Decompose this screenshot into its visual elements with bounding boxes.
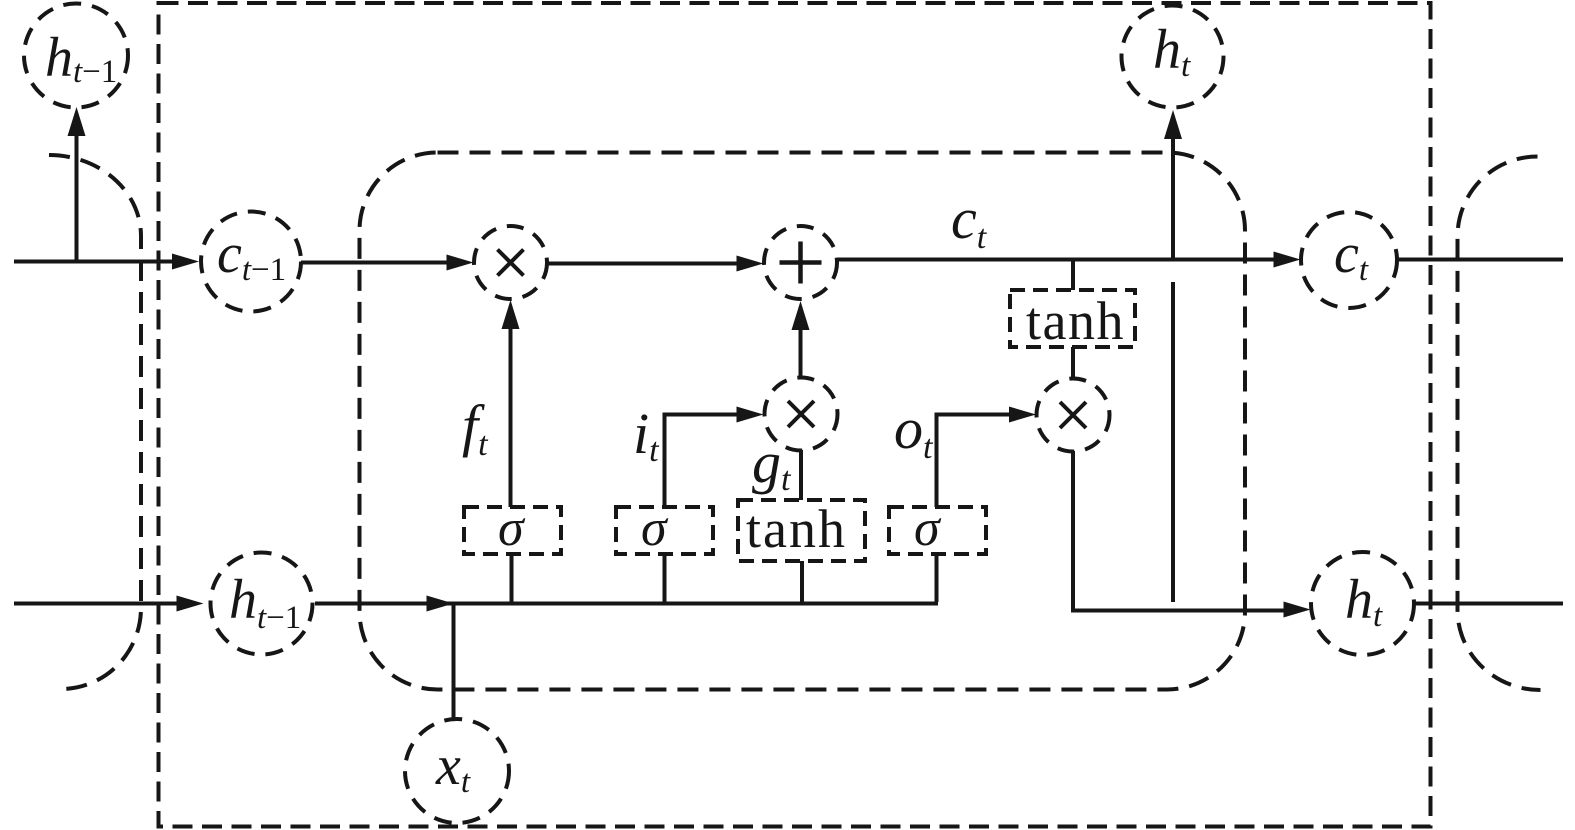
- wire tanh down to multiply: [1071, 347, 1075, 379]
- arrowhead into c_t right: [1274, 252, 1301, 268]
- node x_t circle: [405, 719, 509, 823]
- op circle multiply (forget gate): [474, 226, 547, 299]
- wire g arrow shaft up to plus: [799, 328, 803, 378]
- svg-text:tanh: tanh: [746, 499, 847, 559]
- arrowhead into plus: [737, 256, 764, 272]
- arrowhead up into h_t top: [1164, 110, 1182, 139]
- multiply symbol 3: [1060, 402, 1086, 428]
- wire h_t vertical lower part: [1171, 282, 1175, 602]
- node h_t top circle: [1122, 6, 1224, 108]
- svg-text:tanh: tanh: [1026, 291, 1125, 351]
- op circle multiply (input gate): [765, 378, 838, 451]
- multiply symbol 1: [498, 250, 524, 276]
- wire tanh lower connector: [800, 561, 804, 602]
- wire h output from multiply to h_t right: [1073, 451, 1286, 611]
- arrowhead into h_t right: [1284, 602, 1311, 618]
- wire f_t arrow shaft: [509, 328, 513, 507]
- LSTM cell inner rounded dashed rectangle: [360, 153, 1246, 690]
- arrowhead g up into plus: [792, 301, 810, 330]
- arrowhead up into h_{t-1} top-left: [68, 107, 86, 136]
- next-cell edge curve (right): [1458, 157, 1541, 691]
- node h_{t-1} top-left circle: [24, 4, 128, 108]
- op circle plus (cell update): [764, 226, 837, 299]
- op circle multiply (output gate): [1037, 379, 1110, 452]
- wire multiply to plus: [547, 262, 739, 266]
- box tanh (cell output squash): [1010, 290, 1135, 347]
- wire up to h_{t-1} top-left: [75, 136, 79, 262]
- wire sigma1 lower connector: [510, 554, 514, 602]
- previous-cell edge curve (left): [49, 155, 141, 689]
- node c_t right circle: [1301, 212, 1397, 308]
- arrowhead o_t into multiply: [1009, 407, 1036, 423]
- gate box sigma 3 (output): [889, 507, 986, 554]
- arrowhead into junction above x_t: [427, 596, 454, 612]
- gate box sigma 1 (forget): [464, 507, 561, 554]
- arrowhead into h_{t-1} left-middle: [177, 596, 204, 612]
- svg-text:σ: σ: [914, 500, 942, 557]
- wire o_t path: [937, 415, 1012, 508]
- wire h input left: [14, 602, 179, 606]
- arrowhead into multiply 1: [447, 255, 474, 271]
- wire plus to c_t: [837, 258, 1276, 262]
- node h_{t-1} left-middle circle: [211, 553, 313, 655]
- wire c line tap down to tanh: [1071, 260, 1075, 290]
- wire c_{t-1} to multiply: [301, 261, 449, 265]
- wire h_t long vertical up: [1171, 138, 1175, 259]
- multiply symbol 2: [788, 401, 814, 427]
- svg-text:σ: σ: [498, 500, 526, 557]
- arrowhead f_t up into multiply 1: [502, 300, 520, 329]
- wire h_t output right: [1414, 602, 1563, 606]
- wire c input left: [14, 260, 174, 264]
- wire h_{t-1} to junction and across: [315, 602, 938, 606]
- node c_{t-1} circle: [201, 212, 301, 312]
- gate box sigma 2 (input): [616, 507, 713, 554]
- plus symbol: [780, 242, 822, 284]
- wire c_t output right: [1397, 258, 1563, 262]
- wire tanh to multiply (candidate): [799, 450, 803, 500]
- gate box tanh (candidate): [738, 500, 865, 561]
- arrowhead into c_{t-1}: [172, 254, 199, 270]
- svg-text:σ: σ: [641, 500, 669, 557]
- node h_t right circle: [1311, 552, 1414, 655]
- wire junction down to x_t: [452, 604, 456, 720]
- wire sigma3 lower connector: [935, 554, 939, 602]
- wire sigma2 lower connector: [663, 554, 667, 602]
- wire i_t path: [665, 415, 740, 508]
- arrowhead i_t into multiply: [737, 407, 764, 423]
